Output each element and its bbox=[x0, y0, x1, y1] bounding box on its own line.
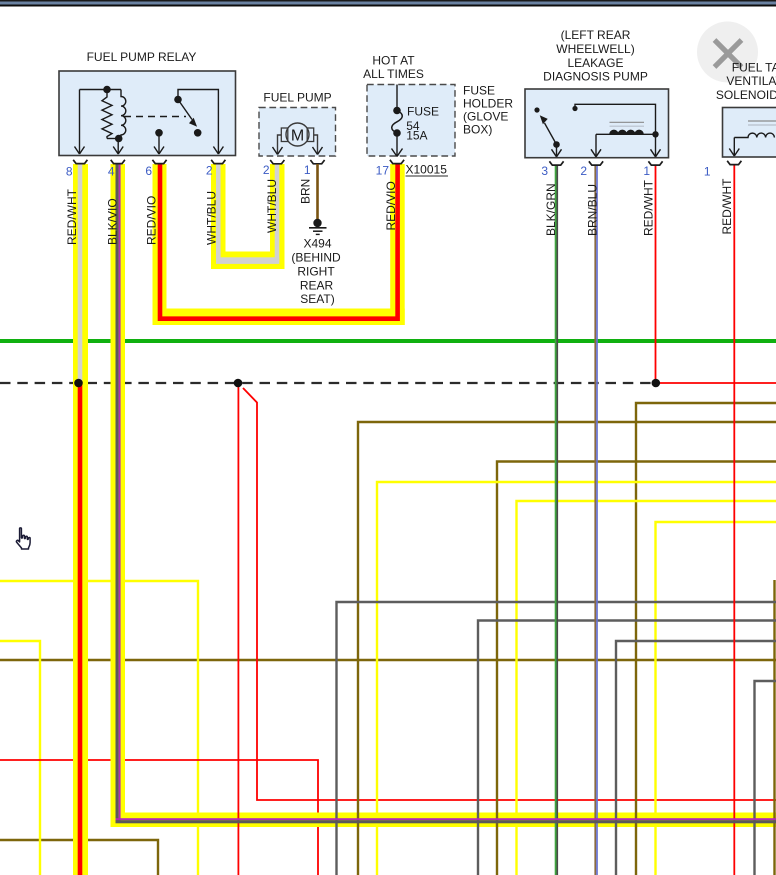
connector label X10015 underlined bbox=[406, 163, 449, 177]
relay pin 6 cup bbox=[152, 160, 166, 164]
svg-text:RED/WHT: RED/WHT bbox=[720, 178, 734, 235]
wire: olive corner at (497,461) down and right bbox=[497, 462, 776, 875]
svg-text:SEAT): SEAT) bbox=[300, 292, 334, 306]
svg-text:FUSE: FUSE bbox=[463, 84, 495, 98]
wire: BRN/BLU from leakage pump pin 2 down to bottom bbox=[595, 165, 597, 875]
solenoid title bbox=[716, 60, 776, 102]
wire: dashed continuation line left section bbox=[0, 382, 656, 384]
solenoid coil winding bbox=[734, 133, 774, 137]
svg-text:X494: X494 bbox=[303, 237, 331, 251]
svg-text:2: 2 bbox=[580, 164, 587, 178]
wire: thin yellow corner from left edge y=581 down at x=198 bbox=[0, 581, 198, 875]
svg-text:(GLOVE: (GLOVE bbox=[463, 110, 508, 124]
relay coil bottom node dot bbox=[107, 135, 122, 143]
wire core: BLK/VIO vertical gray+violet stripes bbox=[116, 164, 121, 823]
fuse pin 17 number bbox=[376, 164, 390, 178]
wire highlight: WHT/BLU U-route relay pin 2 to fuel pump pin 2 bbox=[211, 164, 285, 269]
wire: gray corner at (616,641) down and right bbox=[616, 641, 776, 875]
svg-text:(BEHIND: (BEHIND bbox=[291, 251, 341, 265]
ground X494 symbol bbox=[309, 219, 327, 235]
fuel pump pin 2 number bbox=[263, 163, 270, 177]
svg-text:FUEL PUMP: FUEL PUMP bbox=[263, 90, 331, 104]
relay internal dashed actuation line bbox=[124, 116, 186, 118]
wire: yellow corner at (655.5,522) down and right bbox=[656, 522, 776, 875]
svg-text:WHT/BLU: WHT/BLU bbox=[265, 179, 279, 233]
wire core: BLK/VIO horizontal violet+gray stripes bbox=[116, 818, 776, 823]
svg-text:RED/VIO: RED/VIO bbox=[384, 181, 398, 230]
leakage pump coil core lines bbox=[610, 122, 645, 126]
svg-text:SOLENOID VALVE: SOLENOID VALVE bbox=[716, 88, 776, 102]
relay pin 8 cup bbox=[73, 160, 87, 164]
wire: gray corner at (754.5,681) down and right bbox=[755, 681, 776, 875]
fuel pump pin2 internal wire arrow bbox=[273, 135, 283, 155]
leakage pump reed switch bbox=[534, 107, 559, 147]
svg-text:1: 1 bbox=[704, 165, 711, 179]
label WHT/BLU fuel pump pin 2 wire bbox=[265, 179, 279, 233]
relay pin 2 cup bbox=[211, 160, 225, 164]
leakage pump pin3 arrow bbox=[552, 145, 562, 157]
wire core: RED/WHT pin8 white(gray) above node A bbox=[78, 164, 83, 382]
relay coil winding arcs bbox=[121, 90, 126, 137]
wire: olive corner at (636,403) down and right bbox=[636, 403, 776, 875]
relay pin6 contact dot and arrow bbox=[154, 129, 164, 154]
wire: olive DK-YEL corner from left edge y=840 down at x=159 bbox=[0, 840, 158, 875]
node A junction dot x=78 bbox=[74, 379, 83, 388]
fuse holder box (dashed) bbox=[367, 85, 455, 157]
wire core: WHT/BLU U-route gray stripe bbox=[216, 164, 279, 264]
wire: red horizontal from node C to right edge bbox=[656, 382, 776, 384]
relay pin 6 number bbox=[145, 164, 152, 178]
relay pin 8 number bbox=[66, 165, 73, 179]
svg-text:RIGHT: RIGHT bbox=[297, 264, 335, 278]
wire: yellow corner at (377,482) down and right bbox=[377, 482, 776, 875]
relay pin 2 number bbox=[206, 164, 213, 178]
fuel pump pin 1 cup bbox=[310, 160, 324, 164]
svg-text:ALL TIMES: ALL TIMES bbox=[363, 67, 424, 81]
svg-text:FUEL TANK: FUEL TANK bbox=[732, 60, 776, 74]
svg-text:15A: 15A bbox=[406, 129, 427, 143]
leakage pump title bbox=[543, 28, 648, 83]
svg-text:1: 1 bbox=[643, 164, 650, 178]
relay coil top node dot bbox=[80, 86, 122, 94]
svg-text:BLK/VIO: BLK/VIO bbox=[106, 198, 120, 245]
wire: BLK/GRN from leakage pump pin 3 down to bottom bbox=[556, 165, 558, 875]
relay pin4 branch arrow bbox=[113, 139, 123, 155]
svg-text:M: M bbox=[291, 128, 304, 145]
fuse feed title HOT AT ALL TIMES bbox=[363, 54, 424, 81]
wire: BRN ground lead bbox=[316, 164, 319, 220]
label RED/VIO fuse wire bbox=[384, 181, 398, 230]
svg-text:6: 6 bbox=[145, 164, 152, 178]
svg-text:1: 1 bbox=[304, 163, 311, 177]
wire highlight: RED/VIO U-route relay pin 6 to fuse pin 17 bbox=[153, 164, 405, 325]
wire: thin yellow corner from left edge y=641 down at x=40 bbox=[0, 641, 40, 875]
wire: gray corner at (478,620) down and right bbox=[478, 621, 776, 875]
wire: olive DK-YEL horizontal full width y=660 bbox=[0, 659, 776, 661]
wire: green page-link horizontal line bbox=[0, 339, 776, 343]
leakage pump coil right node dot bbox=[652, 131, 658, 137]
wire highlight: RED/WHT relay pin 8 vertical band bbox=[73, 164, 88, 875]
relay resistor zigzag bbox=[102, 90, 112, 139]
fuel pump pin1 internal wire arrow bbox=[313, 135, 323, 155]
label BRN fuel pump pin 1 wire bbox=[299, 179, 313, 204]
svg-text:2: 2 bbox=[263, 163, 270, 177]
svg-text:X10015: X10015 bbox=[406, 163, 448, 177]
label BLK/VIO pin 4 wire bbox=[106, 198, 120, 245]
svg-text:BRN: BRN bbox=[299, 179, 313, 204]
relay switch arm with arrowhead bbox=[178, 100, 196, 126]
wire: gray corner at (336,602) down and right bbox=[337, 602, 776, 875]
svg-text:RED/WHT: RED/WHT bbox=[642, 179, 656, 236]
wire: olive corner at (358,422) down and right bbox=[358, 422, 776, 875]
fuel pump title bbox=[263, 90, 331, 104]
label RED/WHT pin 8 wire bbox=[65, 188, 79, 245]
svg-text:RED/VIO: RED/VIO bbox=[145, 196, 159, 245]
mouse cursor (hand pointer) bbox=[16, 528, 30, 549]
node B junction dot x=238 bbox=[234, 379, 243, 388]
label RED/WHT solenoid pin 1 wire bbox=[720, 178, 734, 235]
fuse F54 element bbox=[392, 85, 403, 157]
ground label X494 (BEHIND RIGHT REAR SEAT) bbox=[291, 237, 341, 307]
wire: RED/WHT from solenoid pin 1 down to bottom bbox=[733, 165, 735, 875]
fuel pump pin 2 cup bbox=[270, 160, 284, 164]
leakage pump box bbox=[525, 89, 669, 158]
svg-text:2: 2 bbox=[206, 164, 213, 178]
wire core: RED/VIO U-route red stripe bbox=[160, 164, 398, 319]
leakage pin 3 number bbox=[541, 164, 548, 178]
wire: RED/WHT from leakage pump pin 1 down to node C bbox=[655, 165, 657, 383]
relay switch throw contact dot bbox=[194, 129, 202, 137]
fuel pump motor brush rectangles bbox=[281, 128, 313, 142]
svg-text:HOT AT: HOT AT bbox=[372, 54, 415, 68]
leakage pin 2 number bbox=[580, 164, 587, 178]
svg-text:HOLDER: HOLDER bbox=[463, 97, 513, 111]
solenoid pin 1 number bbox=[704, 165, 711, 179]
fuel pump motor M circle bbox=[286, 123, 309, 146]
fuse value label FUSE 54 15A bbox=[406, 105, 439, 143]
wire highlight: BLK/VIO relay pin 4 band (vertical + bottom horizontal) bbox=[111, 164, 776, 827]
svg-text:BLK/GRN: BLK/GRN bbox=[544, 183, 558, 236]
label WHT/BLU pin 2 wire bbox=[205, 191, 219, 245]
label BLK/GRN leakage pin 3 wire bbox=[544, 183, 558, 236]
solenoid pin1 arrow bbox=[729, 138, 739, 157]
wire: red corner from left edge y=760 down at x=318 bbox=[0, 760, 318, 875]
label BRN/BLU leakage pin 2 wire bbox=[586, 184, 600, 236]
svg-text:REAR: REAR bbox=[300, 278, 334, 292]
leakage pin 3 cup bbox=[549, 161, 563, 165]
svg-text:3: 3 bbox=[541, 164, 548, 178]
wire: red vertical from node B straight down x=238 bbox=[237, 385, 239, 875]
svg-text:WHEELWELL): WHEELWELL) bbox=[556, 42, 634, 56]
leakage pump pin1 arrow bbox=[651, 134, 661, 157]
svg-text:FUEL PUMP RELAY: FUEL PUMP RELAY bbox=[87, 50, 197, 64]
svg-text:LEAKAGE: LEAKAGE bbox=[567, 56, 623, 70]
solenoid pin 1 cup bbox=[727, 161, 741, 165]
svg-text:4: 4 bbox=[108, 165, 115, 179]
svg-text:FUSE: FUSE bbox=[407, 105, 439, 119]
svg-text:VENTILATION: VENTILATION bbox=[726, 74, 776, 88]
wire: red from node B diagonal then down x=257 then right along y=800 bbox=[243, 388, 776, 800]
leakage pin 1 number bbox=[643, 164, 650, 178]
chrome: close button bbox=[697, 22, 758, 83]
relay switch pivot dot and feed to pin 2 bbox=[174, 90, 223, 155]
svg-text:BOX): BOX) bbox=[463, 123, 492, 137]
relay title bbox=[87, 50, 197, 64]
wire: yellow corner at (516.5,501) down and right bbox=[517, 501, 776, 875]
label RED/VIO pin 6 wire bbox=[145, 196, 159, 245]
fuel pump pin 1 number bbox=[304, 163, 311, 177]
relay internal wire pin8 branch bbox=[75, 90, 85, 155]
svg-text:8: 8 bbox=[66, 165, 73, 179]
svg-text:RED/WHT: RED/WHT bbox=[65, 188, 79, 245]
wire core: RED/WHT pin8 red below node A bbox=[78, 382, 83, 875]
leakage pump coil winding bbox=[596, 130, 656, 134]
svg-text:DIAGNOSIS PUMP: DIAGNOSIS PUMP bbox=[543, 70, 648, 84]
fuse pin 17 cup bbox=[390, 160, 404, 164]
svg-text:(LEFT REAR: (LEFT REAR bbox=[561, 28, 631, 42]
relay pin 4 number bbox=[108, 165, 115, 179]
leakage pin 1 cup bbox=[648, 161, 662, 165]
wire: olive vertical at right edge from y=580 down bbox=[773, 580, 775, 875]
fuse holder location label bbox=[463, 84, 513, 137]
leakage pin 2 cup bbox=[589, 161, 603, 165]
svg-text:17: 17 bbox=[376, 164, 390, 178]
relay pin 4 cup bbox=[111, 160, 125, 164]
leakage pump feed node dot and top link bbox=[572, 104, 655, 134]
solenoid box (clipped at right edge) bbox=[723, 108, 776, 158]
relay K box bbox=[59, 71, 236, 156]
label RED/WHT leakage pin 1 wire bbox=[642, 179, 656, 236]
svg-text:BRN/BLU: BRN/BLU bbox=[586, 184, 600, 236]
svg-text:WHT/BLU: WHT/BLU bbox=[205, 191, 219, 245]
node C junction dot x=655 bbox=[652, 379, 661, 388]
leakage pump pin2 arrow bbox=[591, 134, 601, 157]
solenoid coil core lines bbox=[748, 121, 776, 125]
fuel pump box (dashed) bbox=[259, 108, 336, 157]
